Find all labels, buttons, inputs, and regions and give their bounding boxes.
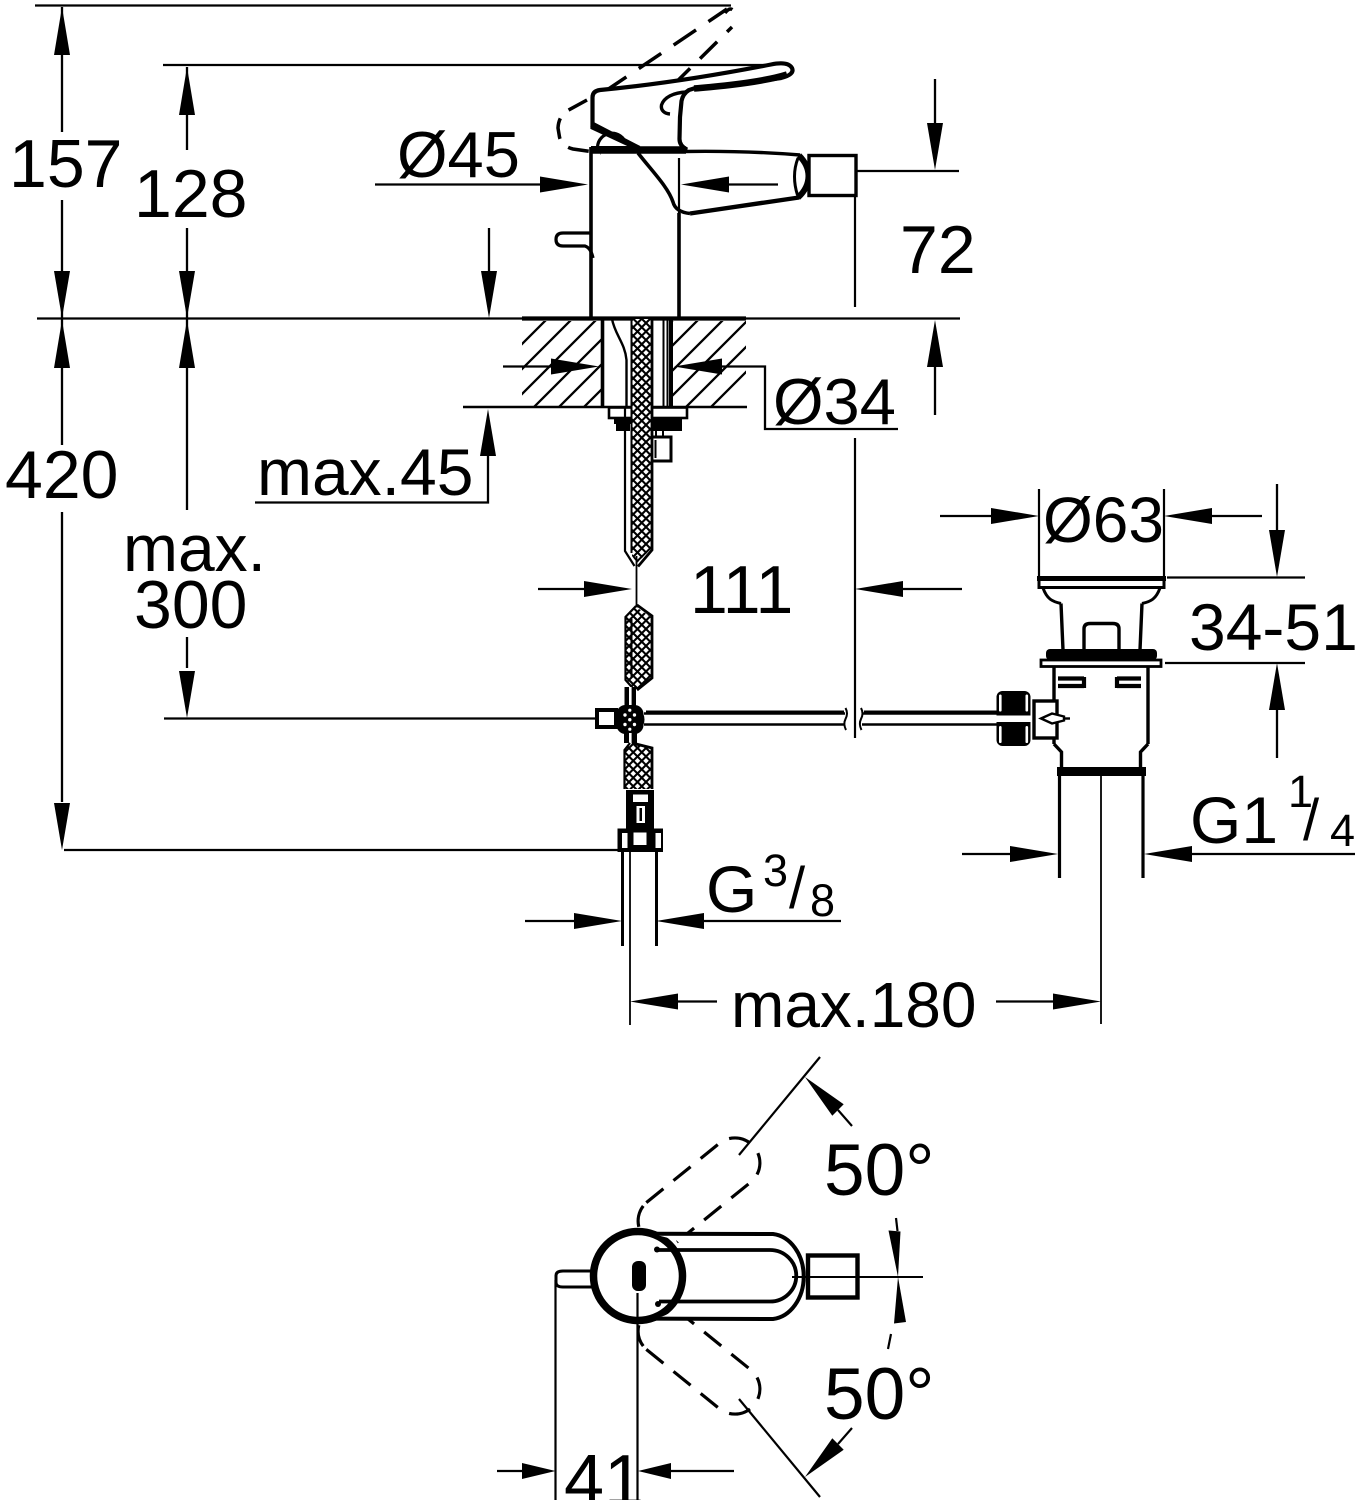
dimension max.180 [630,994,678,1010]
lever front lip detail [661,92,687,114]
dimension 34-51 extension lines [1165,578,1305,664]
top view inner junction dots [654,1247,660,1253]
arrow max45 down (above counter) [488,228,490,272]
dimension ref line top (157 level) [35,4,731,6]
supply hose braid upper (through counter) [632,319,651,407]
drain centerline [1100,776,1102,1024]
dashed raised-lever front line [646,27,732,112]
dimension line 128 vertical [186,67,188,668]
top view dashed handle position upper [638,1138,760,1246]
drain tailpipe [1060,776,1144,878]
hose nut lower [618,829,664,853]
drain flange [1039,578,1164,588]
body-spout junction curve [638,153,690,214]
dimension 34-51 [1276,484,1278,531]
arrow 420 top up [54,320,70,368]
aerator box [809,156,856,196]
dimension 41 [497,1470,522,1472]
mounting nut [614,418,682,424]
hose centerline lower [629,852,631,1025]
dashed rotated-base corner [558,100,601,153]
dimension 41 extension lines [556,1280,638,1500]
supply hose braid segment D [624,743,652,789]
svg-text:72: 72 [900,212,976,288]
rod clamp pointer [1041,714,1064,724]
ball bottom collar [624,733,637,743]
drain body sides [1054,667,1148,745]
supply hose braid segment B [632,407,651,563]
hose neck into ball [625,687,637,706]
svg-text:34-51: 34-51 [1189,590,1358,664]
svg-text:Ø63: Ø63 [1043,484,1164,556]
top view spout outline [652,1234,804,1319]
top view dashed handle position lower [638,1306,760,1414]
angle leader line lower [739,1399,820,1497]
rod tee body [1034,701,1057,738]
dimension Ø63 [940,515,993,517]
pop-up rod clevis [597,710,616,727]
countertop hatching right [586,319,799,407]
pop-up joint ball [617,705,644,734]
drain neck sides [1061,604,1142,651]
pop-up rod in hole [664,319,668,406]
drain plug lift tab [1084,624,1119,651]
shank inlet bend [612,319,627,406]
lever blade outline [593,63,793,149]
svg-text:41: 41 [564,1441,644,1500]
svg-text:420: 420 [5,437,118,513]
spray angle tick marks [889,1231,901,1278]
arrow max300 bottom down [179,671,195,718]
svg-text:50°: 50° [824,1130,934,1211]
extension line aerator center [854,195,856,738]
svg-text:max.180: max.180 [731,969,976,1041]
svg-text:50°: 50° [824,1354,934,1435]
G3/8 threaded pipe [623,852,657,946]
drain Ø63 extension lines [1039,489,1164,578]
dashed raised-lever back line [604,9,727,92]
svg-text:111: 111 [690,552,793,628]
drain upper body flange [1041,660,1161,667]
top view spout fill mask [652,1234,804,1319]
counter hole right edge [669,319,673,406]
extension line body right edge [678,158,680,213]
svg-text:128: 128 [134,156,247,232]
faucet body top band [591,146,685,153]
drain flange-to-neck curves [1043,588,1061,604]
spout top edge [683,151,800,155]
countertop underside line [463,406,747,409]
counter hole left edge [601,319,605,406]
max300 reference line [164,717,599,719]
angle leader line upper [739,1057,820,1155]
escutcheon plate under counter [609,408,687,419]
spout bottom edge [690,198,799,214]
top view centerline [792,1276,923,1278]
angle arrow upper [805,1077,844,1116]
dimension line 157 vertical [61,7,63,802]
top view aerator square [808,1256,858,1298]
svg-text:G: G [706,852,757,926]
dimension G1 1/4 [962,853,1012,855]
svg-text:300: 300 [134,567,247,643]
rod break marks [844,708,847,730]
pop-up knob on body [556,233,593,258]
svg-text:Ø45: Ø45 [397,118,520,191]
svg-text:3: 3 [763,845,788,896]
hose end ferrule and nut upper [626,790,654,829]
pop-up rod guide block [651,437,671,461]
pop-up rod below counter [656,407,663,437]
faucet body right edge [677,213,681,318]
top view spout inner outline [658,1250,796,1302]
arrow max45 up (below counter) [480,409,496,456]
drain body bottom band [1057,767,1146,776]
dashed raised-lever tip arc [725,9,735,13]
svg-text:8: 8 [810,875,835,926]
svg-text:G1: G1 [1190,783,1278,857]
faucet body top band overlay [591,146,686,154]
drain body taper [1054,744,1148,768]
angle arrow lower [805,1438,844,1477]
dashed rotated-lever bottom arc [645,98,659,142]
top view lever end blob [632,1261,646,1291]
top view pop-up knob [556,1271,594,1287]
drain seal ring (black band) [1046,649,1157,660]
pop-up rod horizontal [644,714,845,725]
svg-text:4: 4 [1330,805,1355,856]
svg-text:max.45: max.45 [257,435,473,509]
dimension G3/8 [525,920,576,922]
arrow 128 bottom down [179,271,195,318]
svg-text:157: 157 [9,126,122,202]
dimension 111 [538,588,586,590]
hose-end level baseline (420 reference) [64,849,619,851]
lever back-bottom diagonal [592,124,640,149]
drain body slots [1058,677,1084,688]
arrow 157 top up [54,7,70,55]
dimension 72 [856,170,959,172]
dimension ref line handle-top (128 level) [163,64,771,66]
countertop hatching left [434,319,672,407]
arrow 420 bottom down [54,803,70,850]
svg-text:/: / [1303,788,1320,853]
top view body circle [594,1232,683,1321]
svg-text:Ø34: Ø34 [773,365,896,438]
hose centerline break [636,556,638,616]
svg-text:/: / [789,856,806,921]
arrow 157 bottom down [54,271,70,318]
dimension Ø34 [503,365,553,367]
rod knurled nut [997,691,1031,746]
supply hose braid segment C [626,607,651,689]
arrow max300 top up [179,320,195,368]
arrow 128 top up [179,67,195,115]
spout end cap [798,156,809,198]
cartridge dome arc [598,133,627,147]
countertop surface line [37,317,522,319]
faucet body left edge [589,147,593,318]
lever underside thick edge [694,75,787,89]
